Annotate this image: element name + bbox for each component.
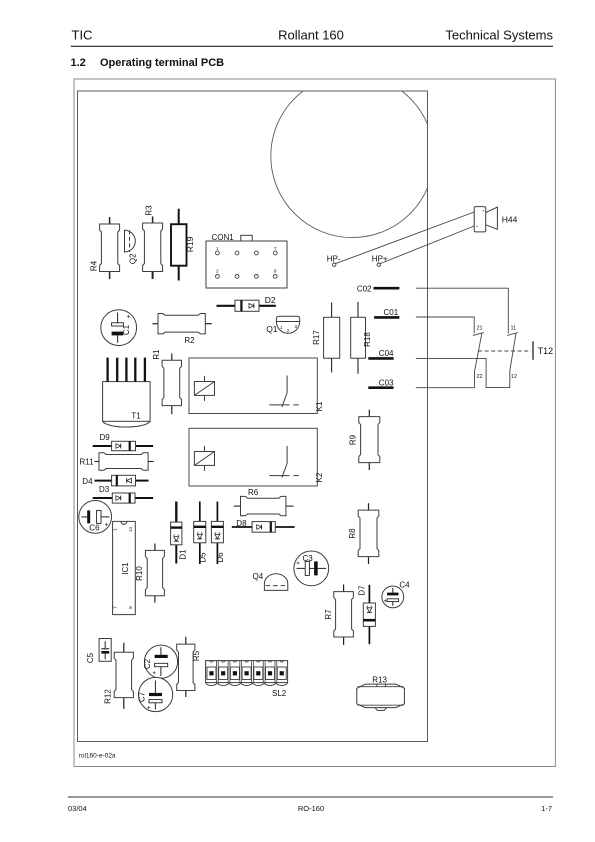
pad C03 (368, 378, 394, 387)
transistor Q4 (253, 572, 288, 590)
svg-text:C4: C4 (399, 581, 410, 590)
wire C04 to contact 12 (416, 358, 510, 387)
svg-text:R11: R11 (80, 458, 95, 467)
svg-text:D3: D3 (99, 485, 110, 494)
svg-text:HP+: HP+ (372, 254, 388, 263)
switch T12 contact 11-12 (507, 326, 518, 380)
svg-text:Q2: Q2 (128, 253, 137, 264)
svg-text:C7: C7 (137, 691, 146, 702)
svg-text:R6: R6 (248, 488, 259, 497)
diode D4 (82, 475, 148, 486)
svg-text:C01: C01 (384, 308, 399, 317)
svg-text:T12: T12 (538, 346, 554, 356)
resistor R7 (324, 584, 354, 645)
svg-text:D5: D5 (198, 552, 207, 563)
svg-text:R12: R12 (103, 689, 112, 704)
resistor R17 (312, 303, 340, 373)
diode D2 (217, 295, 276, 311)
diode D5 (194, 502, 208, 565)
svg-text:R4: R4 (90, 260, 99, 271)
svg-text:Rollant 160: Rollant 160 (278, 28, 344, 43)
svg-text:22: 22 (477, 374, 483, 380)
terminal strip SL2 (206, 661, 288, 698)
T12 terminal bar (532, 341, 534, 360)
wire C03 to contact 22 (416, 372, 475, 388)
svg-text:K2: K2 (315, 472, 324, 482)
svg-text:H44: H44 (502, 214, 518, 224)
capacitor C1 (101, 310, 137, 346)
svg-text:D4: D4 (82, 477, 93, 486)
svg-text:Q1: Q1 (266, 324, 278, 334)
footer rule (68, 796, 553, 798)
pad HP+ (372, 254, 388, 266)
svg-text:1-7: 1-7 (541, 804, 552, 813)
svg-text:C3: C3 (303, 554, 314, 563)
svg-text:RO-160: RO-160 (298, 804, 324, 813)
capacitor C3 (294, 551, 329, 586)
speaker cutout circle (271, 74, 434, 237)
svg-text:D1: D1 (178, 549, 187, 560)
diode D1 (171, 502, 188, 564)
svg-text:CON1: CON1 (212, 233, 235, 242)
speaker H44 (474, 207, 517, 232)
capacitor C4 (382, 581, 410, 608)
svg-text:D9: D9 (100, 433, 111, 442)
svg-text:T1: T1 (131, 412, 141, 421)
svg-text:D7: D7 (357, 585, 366, 596)
resistor R5 (177, 637, 201, 697)
svg-text:Operating terminal PCB: Operating terminal PCB (100, 57, 224, 69)
resistor R2 (153, 314, 212, 345)
svg-text:03/04: 03/04 (68, 804, 87, 813)
svg-text:C04: C04 (379, 349, 394, 358)
figure frame (74, 79, 555, 767)
svg-text:1.2: 1.2 (71, 57, 86, 69)
resistor R3 (143, 205, 163, 279)
svg-text:C1: C1 (122, 324, 131, 335)
svg-text:14: 14 (128, 527, 133, 533)
svg-text:R19: R19 (185, 236, 195, 252)
capacitor C7 (137, 677, 172, 711)
diode D8 (232, 519, 295, 532)
wire HP+ to speaker (380, 226, 474, 264)
svg-text:C03: C03 (379, 378, 394, 387)
svg-text:R17: R17 (312, 330, 321, 345)
resistor R19 (171, 209, 195, 281)
resistor R1 (152, 349, 182, 414)
svg-text:C5: C5 (86, 652, 95, 663)
pad C02 (357, 284, 400, 293)
resistor R10 (135, 544, 165, 603)
svg-text:SL2: SL2 (272, 689, 287, 698)
svg-text:R18: R18 (363, 332, 372, 347)
T12 actuator dashed link (478, 350, 531, 352)
svg-text:21: 21 (477, 326, 483, 332)
transformer T1 (103, 358, 151, 427)
pad C04 (368, 349, 394, 358)
svg-text:R10: R10 (135, 566, 144, 581)
resistor R4 (90, 217, 120, 279)
svg-text:D6: D6 (216, 552, 225, 563)
svg-text:D2: D2 (265, 295, 276, 305)
resistor R18 (351, 302, 373, 374)
diode D3 (93, 485, 153, 503)
svg-text:R5: R5 (192, 650, 201, 661)
svg-text:R3: R3 (145, 205, 154, 216)
relay K2 (189, 428, 324, 486)
resistor R8 (348, 503, 379, 564)
transistor Q2 (125, 230, 138, 264)
PCB outline (78, 91, 428, 742)
relay K1 (189, 358, 324, 414)
svg-text:TIC: TIC (72, 28, 93, 43)
resistor R9 (348, 410, 380, 470)
resistor R11 (80, 453, 154, 471)
svg-text:C2: C2 (143, 658, 152, 669)
wire C02 to contact 11 (416, 288, 508, 333)
capacitor C2 (143, 645, 178, 678)
svg-text:K1: K1 (315, 401, 324, 411)
diode D9 (93, 433, 153, 451)
svg-text:R7: R7 (324, 609, 333, 620)
svg-text:11: 11 (511, 326, 517, 332)
capacitor C6 (79, 501, 112, 534)
connector CON1 (206, 233, 287, 288)
diode D7 (357, 585, 375, 644)
svg-text:IC1: IC1 (121, 562, 130, 575)
svg-text:R8: R8 (348, 528, 357, 539)
switch T12 contact 21-22 (473, 326, 484, 380)
svg-text:rol160-e-02a: rol160-e-02a (79, 753, 116, 760)
pad C01 (374, 308, 399, 317)
svg-text:R13: R13 (372, 675, 387, 684)
svg-text:R1: R1 (152, 349, 161, 360)
wire HP- to speaker (336, 212, 475, 264)
resistor R6 (234, 488, 294, 516)
svg-text:12: 12 (511, 374, 517, 380)
resistor R12 (103, 643, 133, 709)
potentiometer R13 (357, 675, 405, 710)
IC U IC1 (113, 521, 136, 614)
svg-text:Technical Systems: Technical Systems (445, 28, 553, 43)
transistor Q1 (266, 316, 300, 334)
header rule (71, 45, 553, 47)
capacitor C5 (86, 639, 111, 664)
diode D6 (211, 502, 225, 565)
svg-text:C02: C02 (357, 284, 372, 293)
wire C01 to contact 21 (416, 317, 474, 333)
svg-text:R9: R9 (348, 434, 357, 445)
svg-text:Q4: Q4 (253, 572, 264, 581)
svg-text:C6: C6 (89, 524, 100, 533)
pad HP- (327, 254, 341, 266)
svg-text:R2: R2 (184, 336, 195, 345)
